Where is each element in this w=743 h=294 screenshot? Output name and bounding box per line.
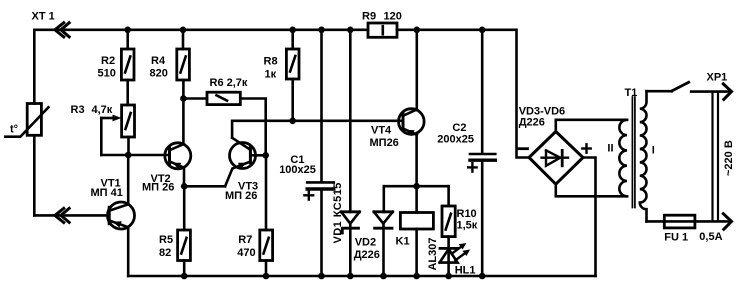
wire VT4 emitter down	[415, 135, 418, 186]
svg-text:R5: R5	[159, 234, 173, 246]
fuse FU1	[664, 220, 729, 223]
thermistor strike line	[5, 107, 48, 136]
wire top bus right segment	[397, 30, 529, 158]
plug XP1 vertical pair	[711, 92, 713, 222]
wire wiper down	[100, 118, 103, 155]
resistor R8	[286, 49, 299, 79]
svg-text:T1: T1	[625, 87, 638, 99]
wire C2 column lower	[481, 162, 484, 276]
wire C1 column lower	[320, 191, 323, 276]
diode VD2	[374, 210, 393, 213]
svg-text:0,5A: 0,5A	[699, 231, 722, 243]
transformer T1 winding II	[619, 120, 627, 197]
svg-text:100x25: 100x25	[279, 164, 316, 176]
wire VT3 emitter to VT2 emitter node	[184, 185, 225, 188]
thermistor body	[27, 104, 41, 136]
plus sign of C2	[468, 163, 476, 171]
svg-text:R6 2,7к: R6 2,7к	[210, 77, 248, 89]
relay contact switch blade	[672, 82, 689, 91]
connector XT1 lower chevron	[55, 207, 70, 223]
svg-text:470: 470	[237, 247, 255, 259]
transistor VT2	[165, 143, 191, 169]
svg-text:HL1: HL1	[455, 265, 476, 277]
relay K1 coil	[400, 213, 433, 230]
svg-text:C2: C2	[452, 122, 466, 134]
node C2 bottom	[479, 273, 486, 280]
transformer T1 winding I	[640, 91, 647, 221]
wiper arrow of R3	[101, 117, 114, 120]
wire R10 to HL1	[447, 237, 450, 276]
svg-text:R7: R7	[238, 234, 252, 246]
plug XP1 top pin	[691, 90, 729, 93]
wire R6 left lead	[183, 97, 207, 100]
node VT4 collector top	[414, 27, 421, 34]
svg-text:МП 26: МП 26	[142, 182, 174, 194]
plus sign at bridge	[582, 144, 590, 152]
node VT3 base	[262, 152, 269, 159]
svg-text:МП26: МП26	[370, 137, 399, 149]
bridge inner diode	[542, 156, 568, 158]
node K1 bottom	[413, 273, 420, 280]
resistor R6	[207, 92, 240, 104]
resistor R3 variable	[122, 105, 135, 137]
svg-text:120: 120	[384, 11, 402, 23]
plug XP1 bottom pin arrow	[723, 214, 731, 230]
svg-text:I: I	[652, 145, 655, 157]
capacitor C2	[470, 153, 495, 156]
node R3 wiper	[125, 152, 132, 159]
svg-text:200x25: 200x25	[437, 134, 474, 146]
wire VT1 emitter down to bus	[127, 227, 130, 276]
svg-text:AL307: AL307	[427, 237, 439, 270]
svg-text:VT4: VT4	[371, 125, 392, 137]
node C2 top	[479, 27, 486, 34]
node R4 top	[180, 27, 187, 34]
wire K1 top lead	[415, 186, 418, 212]
svg-text:82: 82	[159, 247, 171, 259]
svg-text:Д226: Д226	[519, 116, 545, 128]
wire VT3 collector up and right to VT4 base	[232, 121, 403, 138]
svg-text:II: II	[607, 142, 613, 154]
capacitor C1	[307, 181, 334, 184]
svg-text:XT 1: XT 1	[32, 11, 55, 23]
connector XT1 upper chevron	[55, 22, 70, 38]
node VD2 bottom	[380, 273, 387, 280]
node VT4 emitter	[413, 183, 420, 190]
bridge VD3-VD6 diamond	[529, 132, 583, 185]
LED HL1	[440, 247, 457, 250]
wire bridge AC bottom to winding II	[556, 184, 627, 196]
resistor R5	[178, 230, 191, 261]
svg-text:R10: R10	[457, 208, 477, 220]
node VD1 bottom	[347, 273, 354, 280]
node C1 bottom	[318, 273, 325, 280]
svg-text:K1: K1	[396, 236, 410, 248]
wire winding I bottom lead	[647, 220, 665, 223]
svg-text:R3: R3	[71, 104, 85, 116]
wire VT2 emitter down	[183, 168, 186, 187]
svg-text:t°: t°	[10, 124, 18, 136]
minus sign at bridge	[519, 147, 528, 150]
transformer T1 core	[631, 97, 633, 208]
wire node down to VT1 collector	[127, 155, 130, 204]
wire left vertical upper	[33, 30, 36, 104]
wire VT3 base lead	[250, 154, 265, 157]
resistor R4	[177, 49, 190, 80]
node R8 top	[289, 27, 296, 34]
wire R2 to R3	[126, 80, 129, 105]
transistor VT4	[399, 109, 425, 135]
node R5 bottom	[181, 273, 188, 280]
wire bridge AC top to winding II	[556, 120, 627, 132]
resistor R9	[368, 23, 397, 37]
svg-text:VD1 КС515: VD1 КС515	[332, 182, 344, 243]
zener VD1	[341, 210, 359, 213]
wire VT3 base down to R7	[265, 155, 268, 230]
node HL1 bottom	[445, 273, 452, 280]
wire VT2 emitter node to R5	[183, 186, 186, 230]
wire R10 top lead	[447, 186, 450, 206]
svg-text:VD2: VD2	[355, 237, 376, 249]
svg-text:XP1: XP1	[707, 71, 728, 83]
svg-text:~220 В: ~220 В	[723, 140, 735, 176]
wire R4 bottom to VT2 collector	[182, 80, 185, 144]
wire top bus left segment	[34, 28, 368, 31]
transistor VT3	[230, 143, 256, 169]
wire VT4 collector up to bus	[415, 30, 418, 110]
resistor R2	[121, 49, 134, 80]
wire winding I top lead	[647, 90, 672, 93]
transistor VT1	[108, 202, 135, 229]
node VT2 emitter	[181, 183, 188, 190]
wire VD1 bottom to bus	[349, 224, 352, 276]
node VD1 top	[347, 27, 354, 34]
wire left vertical lower	[33, 135, 36, 215]
node R2 top	[124, 27, 131, 34]
wire R2 top lead	[126, 30, 129, 49]
svg-text:R8: R8	[264, 56, 278, 68]
wire R4 top lead	[182, 30, 185, 49]
svg-text:МП 26: МП 26	[225, 190, 257, 202]
wire R8 top lead	[291, 30, 294, 49]
svg-text:1к: 1к	[265, 69, 277, 81]
wire VD2 bottom to bus	[382, 224, 385, 276]
resistor R10	[442, 206, 455, 237]
wire R5 bottom to bus	[183, 261, 186, 277]
wire bridge plus to bottom bus	[583, 158, 596, 277]
node R7 bottom	[263, 273, 270, 280]
wire VD2 top lead	[382, 186, 385, 212]
wire C2 column upper	[481, 30, 484, 153]
wire C1 column upper	[320, 30, 323, 181]
wire node row to VT2 base	[101, 154, 169, 157]
wire R6 right to VT3 base column	[240, 99, 265, 156]
wire XT1 lower lead to VT1 base	[34, 214, 108, 217]
wire K1 bottom to bus	[415, 229, 418, 276]
svg-text:1,5к: 1,5к	[457, 219, 478, 231]
wire relay row horizontal	[384, 185, 449, 188]
svg-text:820: 820	[150, 68, 168, 80]
wire R8 bottom to base line	[291, 79, 294, 121]
wire R7 bottom to bus	[265, 261, 268, 277]
resistor R7	[260, 230, 273, 261]
svg-text:FU 1: FU 1	[664, 232, 688, 244]
svg-text:R4: R4	[151, 55, 166, 67]
wire bottom bus	[128, 275, 595, 278]
svg-text:Д226: Д226	[354, 249, 380, 261]
node C1 top	[318, 27, 325, 34]
svg-text:R2: R2	[101, 55, 115, 67]
wire R3 bottom to node	[127, 137, 130, 155]
svg-text:4,7к: 4,7к	[92, 104, 113, 116]
node R8 base line	[289, 118, 296, 125]
node R4-R6	[180, 95, 187, 102]
svg-text:МП 41: МП 41	[91, 187, 123, 199]
plus sign of C1	[304, 191, 313, 200]
svg-text:510: 510	[98, 68, 116, 80]
wire VD1 column upper	[349, 30, 352, 212]
svg-text:R9: R9	[362, 11, 376, 23]
